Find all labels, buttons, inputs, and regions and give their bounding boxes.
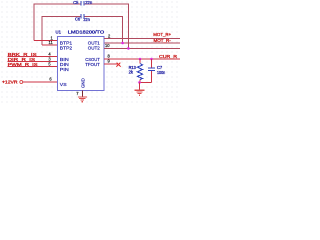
wire MOT_R-	[105, 42, 181, 44]
svg-text:22n: 22n	[83, 17, 90, 22]
wire C7 bottom to R13 bottom	[140, 81, 152, 83]
wire GND pin stub	[81, 91, 83, 97]
net label DIR_R_IS	[8, 57, 58, 62]
junction C7 top	[150, 58, 153, 61]
grid dots	[0, 0, 180, 105]
wire BTP1 stub	[34, 40, 58, 42]
capacitor C7	[148, 59, 165, 82]
svg-text:10: 10	[105, 43, 110, 48]
svg-text:TFOUT: TFOUT	[85, 62, 100, 67]
ground U1	[78, 97, 87, 102]
capacitor C5	[73, 0, 92, 6]
svg-text:CUR_R: CUR_R	[159, 54, 177, 59]
net label PWM_R_IS	[8, 62, 58, 67]
no-connect X	[117, 63, 121, 67]
power symbol +12VR	[2, 80, 58, 85]
wire net BTP2 to OUT2 loop	[42, 17, 123, 46]
capacitor C6	[75, 14, 90, 22]
wire OUT2	[104, 47, 180, 49]
junction C5 net to MOT_R- wire	[121, 42, 124, 45]
svg-text:C5: C5	[73, 0, 79, 5]
wire BTP2 stub	[42, 44, 58, 46]
wire net BTP1 to OUT1 top loop	[34, 4, 129, 48]
wire OUT1 to MOT_R+	[104, 38, 180, 40]
net label BRK_R_IS	[8, 52, 58, 57]
svg-text:PIN: PIN	[60, 67, 69, 72]
wire TFOUT stub	[104, 63, 119, 65]
svg-text:GND: GND	[80, 78, 85, 88]
svg-text:BTP2: BTP2	[60, 45, 73, 50]
svg-text:11: 11	[49, 40, 54, 45]
svg-text:2k: 2k	[129, 70, 134, 75]
svg-text:MOT_R-: MOT_R-	[154, 38, 172, 43]
svg-text:22n: 22n	[85, 0, 92, 5]
wire CSOUT to CUR_R	[104, 58, 180, 60]
svg-text:LMD18200/TO: LMD18200/TO	[68, 30, 105, 36]
svg-text:U1: U1	[56, 30, 62, 36]
svg-text:+12VR: +12VR	[2, 80, 18, 85]
svg-text:OUT2: OUT2	[88, 45, 100, 50]
junction R13 bottom	[138, 81, 141, 84]
ground right	[135, 90, 145, 95]
wire R13 bottom to ground	[139, 82, 141, 89]
svg-text:MOT_R+: MOT_R+	[153, 32, 171, 37]
svg-text:100n: 100n	[157, 70, 166, 75]
resistor R13	[129, 59, 143, 82]
IC U1 body	[56, 30, 105, 91]
svg-text:VS: VS	[60, 82, 67, 87]
svg-text:C6: C6	[75, 17, 81, 22]
junction C6 net to OUT2 wire	[127, 47, 130, 50]
junction R13 top	[139, 58, 142, 61]
